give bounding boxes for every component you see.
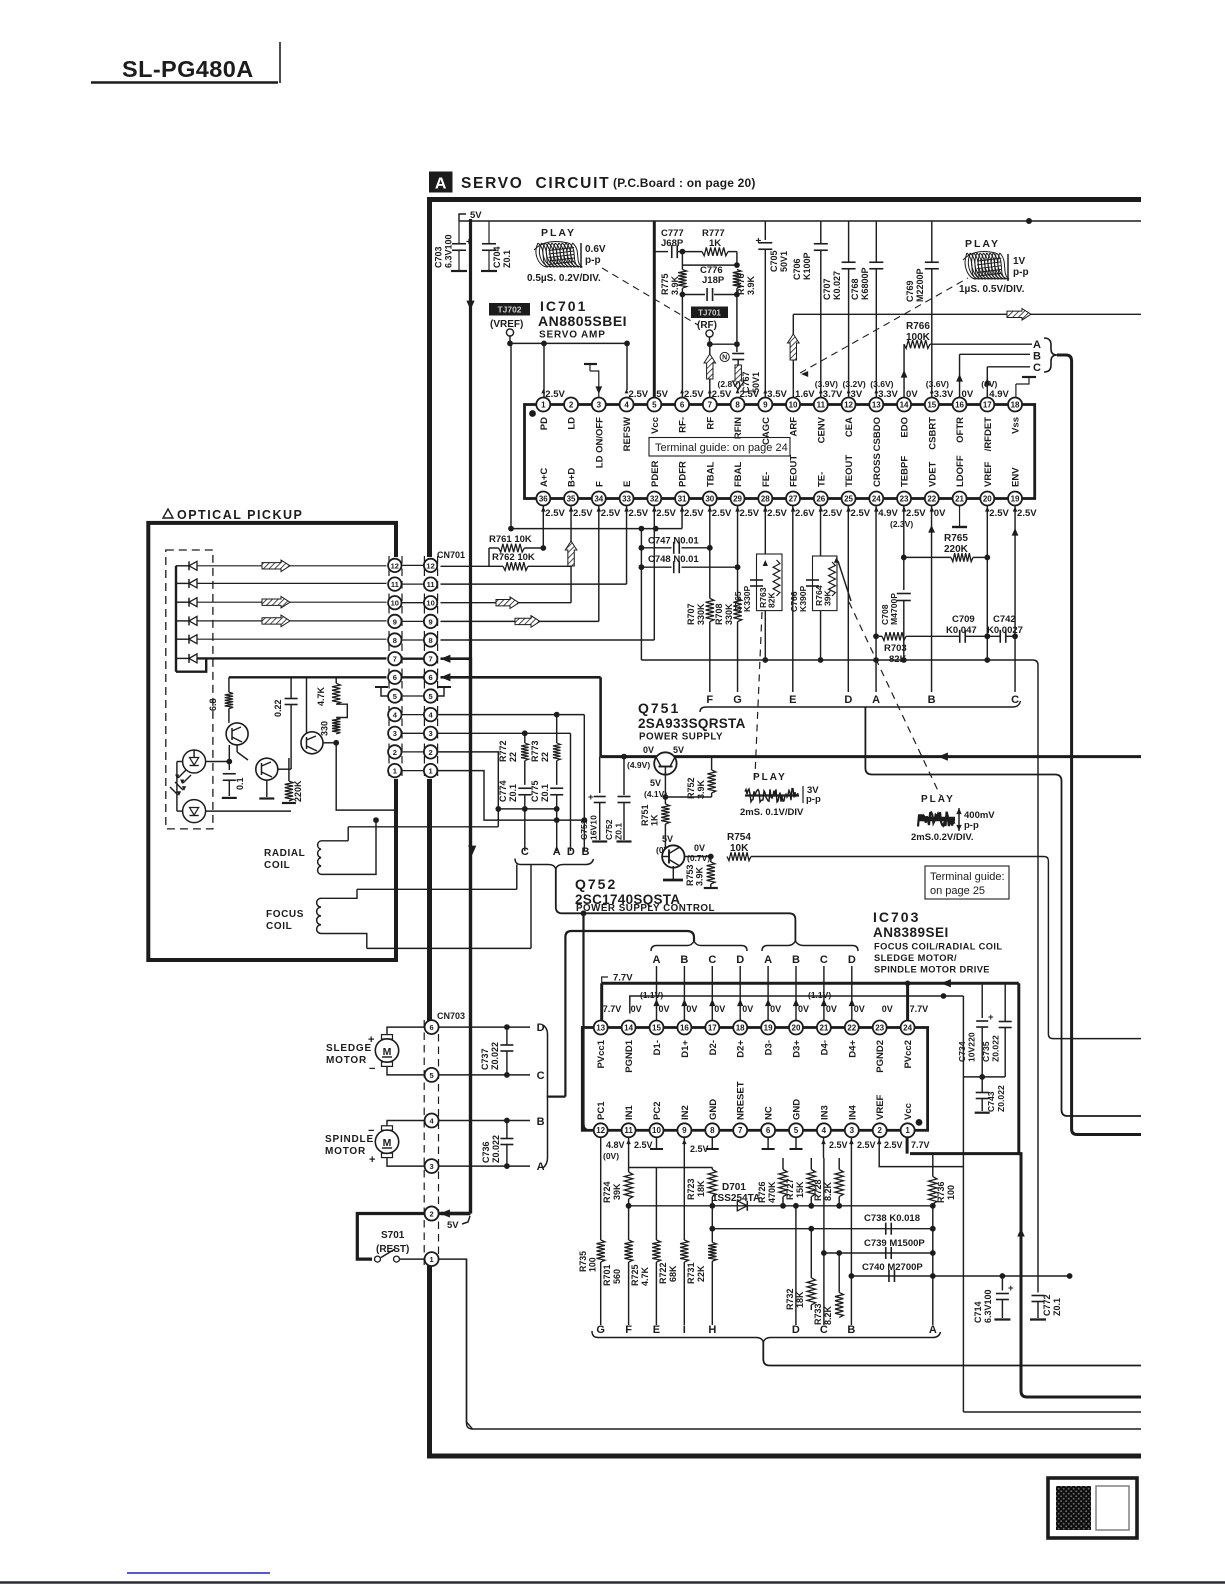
svg-text:330: 330 <box>320 721 330 736</box>
resistor R707 on pin30 F line <box>709 506 711 599</box>
svg-text:3.9K: 3.9K <box>746 275 756 295</box>
svg-text:7.7V: 7.7V <box>603 1004 622 1014</box>
svg-text:−: − <box>368 1125 374 1137</box>
CN701 pin 3 right <box>424 727 437 740</box>
IC703 pin 6 NC <box>761 1123 775 1137</box>
svg-text:J68P: J68P <box>661 238 684 249</box>
svg-text:D: D <box>844 694 852 706</box>
screw mark N <box>720 352 729 361</box>
wire H line R723 R731 <box>656 1167 712 1169</box>
svg-text:E: E <box>789 694 796 706</box>
photodiode D6 <box>189 654 197 663</box>
svg-text:0.5µS. 0.2V/DIV.: 0.5µS. 0.2V/DIV. <box>527 273 601 284</box>
wires laser diodes <box>177 761 183 763</box>
optical pickup box <box>148 523 396 960</box>
svg-text:PC1: PC1 <box>596 1101 607 1120</box>
svg-text:22: 22 <box>847 1023 856 1032</box>
svg-text:0V: 0V <box>906 389 918 400</box>
schematic frame top <box>427 197 1141 202</box>
blue reference underline <box>127 1572 270 1574</box>
wire 5V into CN703 pin2 <box>441 1212 471 1215</box>
CN703 pin 3 <box>425 1159 439 1173</box>
svg-text:NC: NC <box>764 1106 775 1120</box>
CN701 pin 9 right <box>424 615 437 628</box>
resistor 6.8 <box>228 677 230 692</box>
CN701 pin 6 right <box>424 671 437 684</box>
svg-text:2.5V: 2.5V <box>634 1140 653 1150</box>
wire CN701 pin9 to pin34 F <box>437 620 599 622</box>
svg-text:2.5V: 2.5V <box>573 508 593 519</box>
bracket bottom letters <box>592 1331 941 1342</box>
wires photodiodes to CN701 <box>197 565 388 567</box>
svg-text:0V: 0V <box>631 1004 642 1014</box>
IC703 pin 21 D4- <box>817 1021 831 1035</box>
svg-text:R762 10K: R762 10K <box>492 552 535 563</box>
CN701 pin 7 right <box>424 652 437 665</box>
svg-text:Z0.1: Z0.1 <box>614 823 624 840</box>
svg-text:PGND2: PGND2 <box>875 1040 886 1073</box>
svg-text:D2+: D2+ <box>736 1040 747 1058</box>
svg-text:Z0.022: Z0.022 <box>991 1035 1001 1062</box>
svg-text:H: H <box>708 1324 716 1336</box>
svg-text:3.9K: 3.9K <box>696 779 706 799</box>
svg-text:C768: C768 <box>850 278 860 300</box>
svg-text:100: 100 <box>588 1257 598 1272</box>
capacitor C708 on pin23 <box>903 506 905 591</box>
svg-text:2.5V: 2.5V <box>712 508 732 519</box>
svg-text:1.6V: 1.6V <box>795 389 815 400</box>
svg-text:PC2: PC2 <box>652 1102 663 1120</box>
svg-text:24: 24 <box>872 494 881 503</box>
svg-text:3.3V: 3.3V <box>878 389 898 400</box>
IC701 pin 16 OFTR <box>953 398 967 412</box>
svg-text:R728: R728 <box>813 1179 823 1201</box>
wire pin19 ENV to C <box>1014 506 1016 693</box>
resistor R752 <box>711 757 713 770</box>
svg-text:G: G <box>733 694 742 706</box>
test jack TJ701 <box>691 307 728 319</box>
focus coil <box>317 898 321 933</box>
svg-text:C736: C736 <box>481 1141 491 1163</box>
photodiode D1 <box>189 561 197 570</box>
svg-text:POWER SUPPLY CONTROL: POWER SUPPLY CONTROL <box>576 903 715 914</box>
IC701 pin 11 CENV <box>814 398 828 412</box>
IC701 pin 26 TE- <box>814 492 828 506</box>
svg-text:D1+: D1+ <box>680 1040 691 1058</box>
svg-text:REFSW: REFSW <box>622 417 633 451</box>
IC701 pin 17 /RFDET <box>980 398 994 412</box>
svg-text:6: 6 <box>680 400 685 409</box>
svg-text:R708: R708 <box>714 603 724 625</box>
svg-text:39K: 39K <box>612 1183 622 1200</box>
svg-text:R731: R731 <box>686 1262 696 1284</box>
svg-text:470K: 470K <box>767 1181 777 1203</box>
svg-text:0.1: 0.1 <box>235 777 245 790</box>
svg-text:10V220: 10V220 <box>967 1032 977 1062</box>
svg-text:A: A <box>764 954 772 966</box>
svg-text:R773: R773 <box>530 740 540 762</box>
capacitor C751 <box>599 757 601 793</box>
svg-text:2.5V: 2.5V <box>851 508 871 519</box>
wire C738 bus <box>712 1228 933 1230</box>
svg-text:3: 3 <box>429 729 433 738</box>
svg-text:Z0.022: Z0.022 <box>491 1135 501 1163</box>
wire 5V drop thick <box>469 219 472 660</box>
IC701 pin 27 FEOUT <box>786 492 800 506</box>
photo detector LED2 <box>183 800 206 823</box>
svg-text:R775: R775 <box>660 273 670 295</box>
svg-text:VREF: VREF <box>983 461 994 487</box>
IC701 pin 19 ENV <box>1008 492 1022 506</box>
wire VREF bus under IC701 <box>511 528 682 530</box>
svg-text:11: 11 <box>624 1126 633 1135</box>
svg-text:C739 M1500P: C739 M1500P <box>864 1238 925 1249</box>
capacitor C743 <box>981 1077 983 1092</box>
svg-text:PDER: PDER <box>650 460 661 487</box>
svg-text:GND: GND <box>708 1099 719 1120</box>
svg-text:FOCUS COIL/RADIAL COIL: FOCUS COIL/RADIAL COIL <box>874 942 1002 952</box>
CN701 pin 7 left <box>402 658 425 660</box>
svg-text:SERVO AMP: SERVO AMP <box>539 330 606 341</box>
svg-text:FEOUT: FEOUT <box>789 455 800 487</box>
wire pin11 F line <box>628 1138 630 1173</box>
svg-text:SPINDLE: SPINDLE <box>325 1134 374 1145</box>
resistor R751 <box>661 804 669 824</box>
svg-text:5: 5 <box>652 400 657 409</box>
svg-text:+: + <box>756 236 762 247</box>
svg-text:22: 22 <box>508 752 518 762</box>
resistor R727 <box>810 1158 812 1170</box>
svg-text:22: 22 <box>927 494 936 503</box>
IC701 pin 5 Vcc <box>647 398 661 412</box>
label OPTICAL PICKUP <box>163 509 173 518</box>
svg-text:C714: C714 <box>973 1301 983 1323</box>
svg-text:SLEDGE MOTOR/: SLEDGE MOTOR/ <box>874 953 957 963</box>
IC703 pin 22 D4+ <box>845 1021 859 1035</box>
svg-text:GND: GND <box>792 1099 803 1120</box>
hatched arrows on pickup wires <box>262 560 290 572</box>
svg-text:2.5V: 2.5V <box>906 508 926 519</box>
svg-text:(1.1V): (1.1V) <box>640 990 663 1000</box>
svg-text:0V: 0V <box>770 1004 781 1014</box>
wire pin20 VREF down <box>986 506 988 661</box>
wire pickup output down <box>336 743 396 810</box>
svg-text:B+D: B+D <box>567 468 578 487</box>
svg-text:4.9V: 4.9V <box>989 389 1009 400</box>
svg-text:2.5V: 2.5V <box>684 389 704 400</box>
terminal guide note IC703 <box>925 866 1009 899</box>
svg-text:Z0.1: Z0.1 <box>540 784 550 802</box>
svg-text:82K: 82K <box>767 591 777 608</box>
IC701 pin 6 RF- <box>675 398 689 412</box>
svg-text:C737: C737 <box>480 1048 490 1070</box>
IC703 pin 5 GND <box>789 1123 803 1137</box>
svg-text:K100P: K100P <box>802 252 812 280</box>
grounds IC703 pins 10 8 6 5 <box>656 1138 658 1149</box>
svg-text:9: 9 <box>393 617 397 626</box>
svg-text:26: 26 <box>816 494 825 503</box>
resistor R775 <box>681 252 683 270</box>
svg-text:11: 11 <box>427 580 435 589</box>
wire pin10 ARF <box>792 314 794 397</box>
wire C740 bus <box>851 1275 1069 1277</box>
CN703 pin 2 <box>425 1207 439 1221</box>
wire E line with R725 <box>629 1167 657 1169</box>
svg-text:1: 1 <box>429 767 433 776</box>
wire pin12 G line with R735 <box>600 1138 602 1241</box>
svg-text:Q752: Q752 <box>575 876 617 892</box>
svg-text:TE-: TE- <box>816 472 827 487</box>
wire pin31 PDFR stub <box>681 506 683 529</box>
svg-text:A: A <box>929 1324 937 1336</box>
svg-text:TJ701: TJ701 <box>698 309 721 318</box>
capacitor C703 <box>458 221 460 243</box>
svg-text:IN1: IN1 <box>624 1105 635 1121</box>
svg-text:Terminal guide:: Terminal guide: <box>930 871 1005 883</box>
CN701 pin 1 right <box>424 764 437 777</box>
schematic frame left <box>427 197 432 1459</box>
svg-text:AN8805SBEI: AN8805SBEI <box>538 313 627 329</box>
svg-text:PLAY: PLAY <box>541 227 576 239</box>
wire CN701 pin6 feed thick <box>437 676 600 679</box>
IC701 pin 24 CROSS <box>869 492 883 506</box>
svg-text:C738 K0.018: C738 K0.018 <box>864 1213 920 1224</box>
svg-text:CEA: CEA <box>844 417 855 437</box>
title underline <box>91 81 278 83</box>
IC703 pin 12 PC1 <box>594 1123 608 1137</box>
IC701 pin 3 LD ON/OFF <box>592 398 606 412</box>
callout dashed to G <box>755 612 762 776</box>
photodiode array dashed box <box>166 550 213 829</box>
svg-text:6: 6 <box>766 1126 771 1135</box>
CN701 pin 12 left <box>402 564 425 566</box>
svg-text:2.5V: 2.5V <box>823 508 843 519</box>
svg-text:13: 13 <box>596 1023 605 1032</box>
IC703 pin 3 IN4 <box>845 1123 859 1137</box>
svg-text:D: D <box>567 846 575 858</box>
IC703 index dot <box>916 1119 923 1126</box>
wire C747 C748 left riser <box>640 529 642 660</box>
svg-text:B: B <box>847 1324 855 1336</box>
svg-text:(0.7V): (0.7V) <box>687 853 710 863</box>
CN701 pin 12 right <box>424 559 437 572</box>
svg-text:C740 M2700P: C740 M2700P <box>862 1262 923 1273</box>
svg-text:68K: 68K <box>668 1265 678 1282</box>
svg-text:IN3: IN3 <box>819 1105 830 1120</box>
callout dashed to ARF <box>800 278 968 373</box>
svg-text:14: 14 <box>900 400 909 409</box>
svg-text:R723: R723 <box>686 1178 696 1200</box>
svg-text:8: 8 <box>393 636 397 645</box>
svg-text:6.3V100: 6.3V100 <box>444 234 454 268</box>
capacitor C735 <box>1004 983 1006 1021</box>
svg-text:4.7K: 4.7K <box>316 686 326 706</box>
IC701 pin 29 FBAL <box>731 492 745 506</box>
capacitor C737 <box>504 1024 510 1030</box>
svg-text:12: 12 <box>391 561 399 570</box>
svg-text:I: I <box>683 1324 686 1336</box>
svg-text:C752: C752 <box>604 819 614 840</box>
svg-text:2.5V: 2.5V <box>829 1140 848 1150</box>
wire Q751 emitter node <box>664 772 666 804</box>
svg-text:7: 7 <box>738 1126 743 1135</box>
ground pin18 <box>1015 384 1017 398</box>
IC703 pin 15 D1- <box>650 1021 664 1035</box>
svg-text:LDOFF: LDOFF <box>955 455 966 487</box>
ground TR2 emitter <box>266 780 268 797</box>
svg-text:C: C <box>521 846 529 858</box>
CN701 pin 10 right <box>424 596 437 609</box>
svg-text:FOCUS: FOCUS <box>266 909 304 920</box>
IC701 pin 23 TEBPF <box>897 492 911 506</box>
wire C line IC703 pin4 <box>823 1138 825 1159</box>
IC701 pin 32 PDER <box>647 492 661 506</box>
svg-text:CSBRT: CSBRT <box>927 417 938 450</box>
wire B line IC703 pin3 <box>850 1138 852 1326</box>
svg-text:4: 4 <box>822 1126 827 1135</box>
svg-text:10: 10 <box>789 400 798 409</box>
svg-text:0V: 0V <box>686 1004 697 1014</box>
svg-text:(3.6V): (3.6V) <box>926 379 949 389</box>
capacitor C707 <box>848 221 850 262</box>
svg-text:+: + <box>466 237 472 248</box>
svg-text:0V: 0V <box>643 745 654 755</box>
svg-text:22: 22 <box>540 752 550 762</box>
svg-text:24: 24 <box>903 1023 912 1032</box>
svg-text:9: 9 <box>682 1126 687 1135</box>
svg-text:A: A <box>653 954 661 966</box>
svg-text:1: 1 <box>541 400 546 409</box>
svg-text:on page 25: on page 25 <box>930 885 985 897</box>
svg-text:5: 5 <box>430 1071 434 1080</box>
resistor R724 <box>624 1172 632 1199</box>
resistor 4.7K <box>335 677 337 683</box>
svg-text:5V: 5V <box>650 778 661 788</box>
svg-text:0V: 0V <box>854 1004 865 1014</box>
svg-text:10: 10 <box>391 599 399 608</box>
svg-text:+: + <box>588 792 594 803</box>
svg-text:2.5V: 2.5V <box>545 389 565 400</box>
svg-text:IN2: IN2 <box>680 1105 691 1120</box>
svg-text:3.3V: 3.3V <box>934 389 954 400</box>
IC701 pin 8 RFIN <box>731 398 745 412</box>
svg-text:F: F <box>625 1324 632 1336</box>
svg-text:6: 6 <box>430 1023 434 1032</box>
CN701 pin 6 left <box>402 676 425 678</box>
wire pin36 A+C stub <box>542 506 544 549</box>
svg-text:18: 18 <box>736 1023 745 1032</box>
svg-text:p-p: p-p <box>585 255 601 266</box>
svg-text:5V: 5V <box>656 389 668 400</box>
svg-text:PLAY: PLAY <box>965 238 1000 250</box>
svg-text:2.5V: 2.5V <box>857 1140 876 1150</box>
IC703 pin 23 PGND2 <box>873 1021 887 1035</box>
IC701 pin 21 LDOFF <box>953 492 967 506</box>
radial coil <box>318 841 321 875</box>
svg-text:R724: R724 <box>602 1181 612 1203</box>
resistor R726 <box>782 1158 784 1170</box>
svg-text:R751: R751 <box>640 804 650 826</box>
svg-text:D3+: D3+ <box>792 1040 803 1058</box>
svg-text:19: 19 <box>1011 494 1020 503</box>
svg-text:C769: C769 <box>905 280 915 302</box>
svg-text:RADIAL: RADIAL <box>264 848 305 859</box>
svg-text:4.8V: 4.8V <box>606 1140 625 1150</box>
svg-text:D4+: D4+ <box>847 1040 858 1058</box>
svg-text:220K: 220K <box>293 780 303 802</box>
bracket CADB <box>515 859 594 870</box>
svg-text:6: 6 <box>429 673 433 682</box>
wire R751 to Q752 base <box>664 824 666 848</box>
svg-text:2.5V: 2.5V <box>656 508 676 519</box>
IC701 pin 22 VDET <box>925 492 939 506</box>
svg-text:20: 20 <box>792 1023 801 1032</box>
wire CN701 pin12 net <box>437 565 503 567</box>
svg-text:5: 5 <box>393 692 397 701</box>
svg-text:C: C <box>820 1324 828 1336</box>
wire pin24 CROSS to A <box>875 506 877 693</box>
svg-text:IN4: IN4 <box>847 1105 858 1121</box>
svg-text:3.9K: 3.9K <box>670 275 680 295</box>
svg-text:R732: R732 <box>785 1288 795 1310</box>
svg-text:C774: C774 <box>498 780 508 802</box>
svg-text:22K: 22K <box>696 1265 706 1282</box>
svg-text:23: 23 <box>875 1023 884 1032</box>
svg-text:0V: 0V <box>826 1004 837 1014</box>
svg-text:PLAY: PLAY <box>753 772 787 783</box>
svg-text:/RFDET: /RFDET <box>983 417 994 452</box>
resistor R728 <box>838 1158 840 1170</box>
IC703 pin 20 D3+ <box>789 1021 803 1035</box>
wire pin25 TEOUT to D <box>847 506 849 693</box>
IC701 pin 2 LD <box>564 398 578 412</box>
photodiode D5 <box>189 635 197 644</box>
svg-text:C709: C709 <box>952 614 975 625</box>
wires CN703 to letters <box>439 1026 531 1028</box>
terminal guide note IC701 <box>649 438 790 457</box>
transistor TR1 <box>226 723 248 745</box>
svg-text:560: 560 <box>612 1269 622 1284</box>
resistor R776 <box>733 270 741 289</box>
svg-text:C: C <box>708 954 716 966</box>
CN701 pin 8 left <box>402 639 425 641</box>
svg-text:2.5V: 2.5V <box>601 508 621 519</box>
resistor R777 <box>702 247 728 255</box>
bus CN703 DCBA to group1 <box>565 931 694 1097</box>
junction on 5V rail <box>1026 218 1032 224</box>
svg-text:C: C <box>537 1070 545 1082</box>
svg-text:15: 15 <box>927 400 936 409</box>
capacitor C766 and resistor R764 box <box>820 506 822 557</box>
svg-text:IC703: IC703 <box>873 909 920 925</box>
svg-text:6.8: 6.8 <box>208 698 218 711</box>
wire C739 bus <box>824 1252 933 1254</box>
wire D line IC703 <box>795 1206 797 1325</box>
bracket DCBA CN703 <box>543 1025 548 1168</box>
capacitor C768 <box>875 221 877 262</box>
wire Vcc 5V drop to pin5 <box>653 221 656 398</box>
CN701 pin 10 left <box>402 602 425 604</box>
svg-text:(4.1V): (4.1V) <box>644 789 667 799</box>
svg-text:M: M <box>383 1046 392 1058</box>
wire PGND down right <box>962 996 964 1412</box>
svg-text:SLEDGE: SLEDGE <box>326 1043 372 1054</box>
svg-text:10: 10 <box>652 1126 661 1135</box>
IC703 pin 24 PVcc2 <box>901 1021 915 1035</box>
svg-text:1: 1 <box>905 1126 910 1135</box>
svg-text:CENV: CENV <box>816 416 827 443</box>
svg-text:G: G <box>596 1324 605 1336</box>
